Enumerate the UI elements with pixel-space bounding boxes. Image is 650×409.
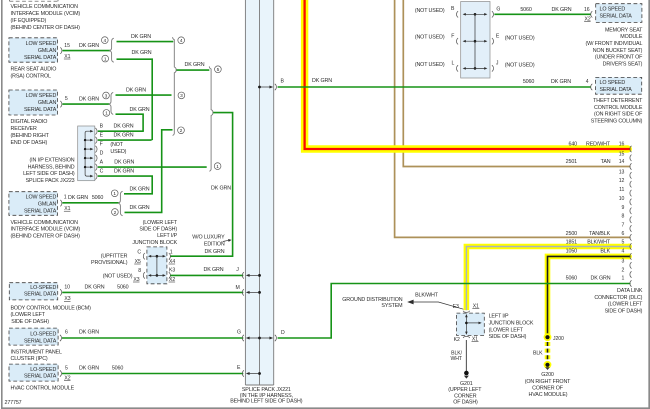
- svg-text:STEERING COLUMN): STEERING COLUMN): [591, 118, 643, 124]
- svg-text:END OF DASH): END OF DASH): [11, 140, 48, 146]
- wire G to memory seat 5060 DK GRN 16: [494, 7, 592, 23]
- svg-text:SERIAL DATA: SERIAL DATA: [24, 55, 57, 61]
- page border right: [648, 0, 650, 409]
- svg-text:(NOT USED): (NOT USED): [505, 35, 535, 41]
- ground distribution arrow BLK/WHT: [407, 293, 463, 310]
- svg-text:DK GRN: DK GRN: [130, 186, 150, 192]
- svg-text:14: 14: [619, 159, 625, 165]
- svg-text:USED): USED): [110, 149, 126, 155]
- svg-text:C: C: [100, 168, 104, 174]
- svg-text:15: 15: [64, 43, 70, 49]
- svg-text:F: F: [100, 141, 103, 147]
- connector pin 15 X1 of RSA: [60, 43, 70, 60]
- wire brace A output DK GRN: [177, 62, 210, 70]
- wire 2500 TAN/BLK (vertical from top to DLC pin 6): [395, 0, 631, 237]
- svg-text:6: 6: [65, 330, 68, 336]
- svg-text:3: 3: [180, 93, 183, 99]
- svg-text:BLK/WHT: BLK/WHT: [587, 240, 611, 246]
- svg-text:(UPFITTER: (UPFITTER: [101, 253, 128, 259]
- DLC pin 8: [622, 214, 632, 223]
- svg-text:(BEHIND CENTER OF DASH): (BEHIND CENTER OF DASH): [11, 25, 81, 31]
- module box DRR low speed GMLAN serial data: [9, 90, 58, 115]
- svg-text:(IF EQUIPPED): (IF EQUIPPED): [11, 18, 47, 24]
- svg-text:SERIAL DATA: SERIAL DATA: [24, 107, 57, 113]
- svg-text:2: 2: [114, 210, 117, 216]
- module box IPC lo-speed serial data: [9, 328, 58, 345]
- svg-text:BEHIND LEFT SIDE OF DASH): BEHIND LEFT SIDE OF DASH): [230, 399, 302, 405]
- svg-text:J200: J200: [553, 336, 564, 342]
- DLC pin 2: [622, 268, 632, 278]
- svg-text:(NOT USED): (NOT USED): [415, 8, 445, 14]
- svg-text:SIDE OF DASH): SIDE OF DASH): [11, 319, 49, 325]
- svg-text:9: 9: [622, 205, 625, 211]
- wire 1851 BLK/WHT core: [466, 247, 630, 311]
- svg-text:MODULE: MODULE: [620, 34, 643, 40]
- module box HVAC lo-speed serial data: [9, 364, 58, 381]
- svg-text:CORNER OF: CORNER OF: [532, 386, 564, 392]
- brace split RSA: [110, 38, 114, 62]
- junction block box (lower): [457, 313, 485, 335]
- svg-text:1050: 1050: [566, 248, 577, 254]
- wire DK GRN 5060 from bus B to theft deterrent: [278, 86, 591, 88]
- wire branch 4 DK GRN: [117, 34, 174, 41]
- svg-text:DK GRN: DK GRN: [552, 7, 572, 13]
- bus pin G/D row: [237, 330, 285, 342]
- label ground distribution system: [342, 297, 403, 309]
- circled 2 at VCIM: [112, 209, 119, 216]
- svg-text:RED/WHT: RED/WHT: [586, 142, 611, 148]
- svg-text:4: 4: [103, 38, 106, 44]
- svg-text:SERIAL DATA: SERIAL DATA: [600, 87, 633, 93]
- svg-text:DIGITAL RADIO: DIGITAL RADIO: [11, 119, 48, 125]
- label IPC: [11, 350, 62, 363]
- svg-text:SERIAL DATA: SERIAL DATA: [24, 338, 57, 344]
- svg-text:LO-SPEED: LO-SPEED: [30, 332, 56, 338]
- svg-text:INTERFACE MODULE (VCIM): INTERFACE MODULE (VCIM): [11, 227, 81, 233]
- svg-text:10: 10: [64, 285, 70, 291]
- svg-text:(NOT USED): (NOT USED): [415, 34, 445, 40]
- svg-text:(LOWER LEFT: (LOWER LEFT: [608, 302, 643, 308]
- svg-text:SERIAL DATA: SERIAL DATA: [24, 208, 57, 214]
- svg-text:DK GRN: DK GRN: [130, 205, 150, 211]
- svg-text:16: 16: [584, 7, 590, 13]
- wire DK GRN from DRR pin 5: [62, 96, 109, 104]
- svg-text:DK GRN: DK GRN: [114, 168, 134, 174]
- svg-text:(NOT USED): (NOT USED): [103, 274, 133, 280]
- JX223 pin D row (not used): [84, 149, 127, 162]
- svg-text:D: D: [100, 150, 104, 156]
- svg-text:DK GRN: DK GRN: [126, 88, 146, 94]
- svg-text:1: 1: [216, 164, 219, 170]
- splice pack JX223 box: [78, 126, 95, 181]
- wire branch 3 DK GRN: [116, 88, 172, 96]
- connector pin 6 of IPC: [60, 330, 68, 342]
- svg-text:INTERFACE MODULE (VCIM): INTERFACE MODULE (VCIM): [11, 11, 81, 17]
- wire BLK/WHT to G201: [451, 340, 467, 371]
- svg-text:5: 5: [65, 365, 68, 371]
- circled 3 at brace A: [178, 92, 185, 99]
- splice row B/G: [415, 6, 501, 17]
- wire 640 RED/WHT core: [305, 0, 631, 149]
- svg-text:277757: 277757: [5, 400, 22, 406]
- labels 5060 DK GRN 4 on theft wire: [523, 79, 592, 90]
- svg-text:16: 16: [619, 142, 625, 148]
- circled 1 at VCIM: [111, 190, 118, 197]
- DLC pin 12: [619, 178, 632, 187]
- page border left: [1, 0, 3, 408]
- brace A collector: [173, 37, 177, 135]
- wire branch 1 DK GRN to JX223 pin E: [117, 50, 153, 140]
- wire DK GRN 5060 from BCM to bus M: [62, 285, 243, 293]
- svg-text:VEHICLE COMMUNICATION: VEHICLE COMMUNICATION: [11, 220, 79, 226]
- junction block row 8/K3: [133, 268, 175, 283]
- svg-text:LOW SPEED: LOW SPEED: [26, 93, 57, 99]
- connector pin 5 X2 of HVAC: [60, 365, 71, 381]
- svg-text:CLUSTER (IPC): CLUSTER (IPC): [11, 356, 48, 362]
- svg-text:TAN/BLK: TAN/BLK: [589, 231, 610, 237]
- module box RSA low speed GMLAN serial data: [9, 38, 58, 62]
- svg-text:8: 8: [622, 214, 625, 220]
- svg-text:(IN I/P EXTENSION: (IN I/P EXTENSION: [29, 158, 74, 164]
- svg-text:L: L: [452, 61, 455, 67]
- wire 1851 end dot highlight: [626, 244, 632, 250]
- svg-text:1: 1: [113, 191, 116, 197]
- svg-text:LOW SPEED: LOW SPEED: [26, 195, 57, 201]
- wire 1050 BLK highlight: [548, 256, 631, 337]
- wire 1050 end dot highlight: [626, 254, 632, 260]
- svg-text:5: 5: [65, 96, 68, 102]
- svg-text:G200: G200: [541, 372, 554, 378]
- wire brace B output DK GRN to junction block row 1: [170, 113, 232, 257]
- brace split DRR: [109, 92, 113, 114]
- svg-text:5060: 5060: [112, 365, 123, 371]
- svg-text:(LOWER LEFT: (LOWER LEFT: [11, 312, 46, 318]
- svg-text:E3: E3: [453, 304, 459, 310]
- wire DK GRN from RSA pin 15: [62, 43, 110, 51]
- svg-text:640: 640: [569, 142, 578, 148]
- svg-text:LEFT I/P: LEFT I/P: [157, 233, 177, 239]
- DLC pin 3: [622, 259, 632, 269]
- wire BLK dashed to G200: [533, 342, 547, 362]
- circled 1 at brace B: [214, 163, 221, 170]
- label digital radio receiver: [11, 119, 50, 146]
- svg-text:DATA LINK: DATA LINK: [617, 288, 643, 294]
- svg-text:REAR SEAT AUDIO: REAR SEAT AUDIO: [11, 66, 57, 72]
- wire DK GRN 5060 from bus D to DLC pin 1: [278, 284, 631, 339]
- JX223 pin A row: [84, 159, 135, 170]
- wire DK GRN from IPC to bus G: [62, 330, 243, 339]
- ground G201: [448, 371, 482, 406]
- svg-text:LO SPEED: LO SPEED: [600, 80, 626, 86]
- svg-text:6: 6: [622, 231, 625, 237]
- svg-text:1: 1: [64, 195, 67, 201]
- label memory seat module: [586, 27, 644, 67]
- circled 1 at RSA: [102, 55, 109, 62]
- svg-text:5060: 5060: [92, 195, 103, 201]
- svg-text:2: 2: [180, 128, 183, 134]
- svg-text:BLK/WHT: BLK/WHT: [415, 293, 439, 299]
- label left I/P junction block lower: [489, 314, 534, 341]
- wire branch 2 DK GRN to brace A: [125, 130, 173, 213]
- svg-text:M: M: [236, 285, 240, 291]
- circled 1 at DRR: [103, 110, 110, 117]
- wire JX223 pin C to VCIM branch 1: [98, 176, 152, 194]
- svg-text:4: 4: [180, 38, 183, 44]
- svg-text:D: D: [281, 330, 285, 336]
- svg-text:LO SPEED: LO SPEED: [600, 7, 626, 13]
- svg-text:5060: 5060: [520, 7, 531, 13]
- DLC pin 10: [619, 196, 632, 205]
- JX223 pin F row (not used): [84, 141, 124, 152]
- bus pin B row: [258, 79, 284, 91]
- svg-text:F: F: [451, 34, 454, 40]
- svg-text:EDITION: EDITION: [204, 242, 225, 248]
- svg-text:DK GRN: DK GRN: [132, 50, 152, 56]
- svg-text:DK GRN: DK GRN: [211, 185, 231, 191]
- splice row L/J: [415, 60, 535, 71]
- connector pin 1 X1 of VCIM: [60, 195, 70, 212]
- svg-text:2500: 2500: [566, 231, 577, 237]
- ground G200: [525, 361, 571, 398]
- wire DK GRN 5060 from VCIM pin 1: [62, 195, 118, 203]
- svg-text:DK GRN: DK GRN: [114, 132, 134, 138]
- svg-text:1851: 1851: [566, 240, 577, 246]
- svg-text:DK GRN: DK GRN: [551, 79, 571, 85]
- splice row F/E: [415, 34, 535, 45]
- label rear seat audio: [11, 66, 57, 79]
- svg-text:HARNESS, BEHIND: HARNESS, BEHIND: [28, 165, 75, 171]
- DLC pin 11: [619, 187, 631, 196]
- svg-text:DK GRN: DK GRN: [85, 285, 105, 291]
- brace split VCIM: [119, 191, 123, 215]
- svg-text:(LOWER LEFT: (LOWER LEFT: [143, 220, 178, 226]
- svg-text:SERIAL DATA: SERIAL DATA: [24, 292, 57, 298]
- svg-text:GMLAN: GMLAN: [38, 100, 57, 106]
- circled 5 at brace B: [215, 66, 222, 73]
- DLC pin 4 row labels: [566, 248, 632, 259]
- svg-text:DK GRN: DK GRN: [185, 62, 205, 68]
- wire 1851 BLK/WHT highlight: [466, 247, 630, 311]
- svg-text:INSTRUMENT PANEL: INSTRUMENT PANEL: [11, 350, 62, 356]
- svg-text:MEMORY SEAT: MEMORY SEAT: [605, 27, 643, 33]
- svg-text:(UPPER LEFT: (UPPER LEFT: [448, 387, 482, 393]
- svg-text:3: 3: [105, 93, 108, 99]
- DLC pin 7: [622, 223, 632, 232]
- circled 4 at RSA: [101, 37, 108, 44]
- svg-text:DK GRN: DK GRN: [114, 123, 134, 129]
- label VCIM top: [11, 4, 81, 31]
- DLC pin 13: [619, 169, 632, 178]
- connector pin 5 of DRR: [60, 96, 68, 107]
- circled 3 at DRR: [103, 92, 110, 99]
- module box memory seat lo speed serial data: [596, 4, 642, 23]
- JX223 pin C row: [90, 168, 134, 179]
- svg-text:CONTROL MODULE: CONTROL MODULE: [594, 105, 643, 111]
- svg-text:(ON RIGHT FRONT: (ON RIGHT FRONT: [525, 379, 571, 385]
- svg-text:GMLAN: GMLAN: [38, 201, 57, 207]
- label splice pack JX221: [230, 387, 302, 404]
- wire JX223 pin A to brace: [98, 166, 207, 168]
- svg-text:CORNER: CORNER: [454, 393, 477, 399]
- svg-text:BLK: BLK: [600, 248, 610, 254]
- svg-text:DK GRN: DK GRN: [312, 78, 332, 84]
- bus pin E row: [237, 365, 261, 377]
- svg-text:1: 1: [104, 56, 107, 62]
- svg-text:DK GRN: DK GRN: [114, 159, 134, 165]
- svg-text:1: 1: [622, 275, 625, 281]
- module box theft lo speed serial data: [596, 77, 642, 94]
- svg-text:LO-SPEED: LO-SPEED: [30, 285, 56, 291]
- svg-text:HVAC CONTROL MODULE: HVAC CONTROL MODULE: [11, 385, 75, 391]
- svg-text:G: G: [496, 7, 500, 13]
- svg-text:LOW SPEED: LOW SPEED: [26, 41, 57, 47]
- junction block box (upper): [147, 247, 167, 284]
- svg-text:7: 7: [622, 223, 625, 229]
- wire JX223 pin E: [98, 139, 152, 141]
- JX223 pin B row: [90, 123, 134, 134]
- svg-text:12: 12: [619, 178, 625, 184]
- module box VCIM low speed GMLAN serial data: [9, 192, 58, 216]
- svg-text:LO-SPEED: LO-SPEED: [30, 367, 56, 373]
- svg-text:G: G: [237, 330, 241, 336]
- svg-text:1: 1: [105, 111, 108, 117]
- label VCIM lower: [11, 220, 81, 240]
- wire 1050 BLK core: [548, 256, 631, 336]
- svg-text:(W/ FRONT INDIVIDUAL: (W/ FRONT INDIVIDUAL: [586, 41, 643, 47]
- svg-text:TAN: TAN: [601, 159, 611, 165]
- svg-text:DRIVER'S SEAT): DRIVER'S SEAT): [603, 61, 643, 67]
- svg-text:DK GRN: DK GRN: [205, 249, 225, 255]
- svg-text:RECEIVER: RECEIVER: [11, 126, 37, 132]
- bus pin M row: [236, 285, 261, 295]
- svg-text:C: C: [137, 250, 141, 256]
- svg-text:DK GRN: DK GRN: [591, 275, 611, 281]
- label upfitter provisional: [91, 253, 128, 266]
- svg-text:VEHICLE COMMUNICATION: VEHICLE COMMUNICATION: [11, 4, 79, 10]
- svg-text:(ON RIGHT SIDE OF: (ON RIGHT SIDE OF: [594, 112, 643, 118]
- label theft deterrent control module: [591, 98, 643, 124]
- svg-text:HVAC MODULE): HVAC MODULE): [529, 392, 568, 398]
- svg-text:SPLICE PACK JX223: SPLICE PACK JX223: [26, 178, 75, 184]
- svg-text:BODY CONTROL MODULE (BCM): BODY CONTROL MODULE (BCM): [11, 306, 92, 312]
- wire 640 RED/WHT end dot highlight: [625, 146, 632, 153]
- svg-text:GMLAN: GMLAN: [38, 48, 57, 54]
- svg-text:BLK: BLK: [533, 350, 543, 356]
- svg-text:SIDE OF DASH): SIDE OF DASH): [139, 227, 177, 233]
- splice box top right: [461, 2, 490, 79]
- DLC pin 14 row labels: [566, 159, 632, 170]
- svg-text:WHT: WHT: [451, 356, 463, 362]
- JX223 pin E row: [84, 132, 134, 143]
- wire DK GRN 5060 from HVAC to bus E: [62, 365, 243, 373]
- label left I/P junction block (upper): [132, 220, 178, 246]
- svg-text:W/O LUXURY: W/O LUXURY: [192, 235, 225, 241]
- svg-text:5: 5: [622, 240, 625, 246]
- label W/O luxury edition with arrow: [192, 235, 231, 248]
- svg-text:(NOT: (NOT: [110, 142, 123, 148]
- svg-text:LEFT SIDE OF DASH): LEFT SIDE OF DASH): [23, 171, 75, 177]
- DLC pin 15: [619, 151, 632, 161]
- svg-text:JUNCTION BLOCK: JUNCTION BLOCK: [489, 321, 534, 327]
- svg-text:(NOT USED): (NOT USED): [505, 63, 535, 69]
- svg-text:(NOT USED): (NOT USED): [415, 62, 445, 68]
- svg-text:OF DASH): OF DASH): [453, 400, 478, 406]
- svg-text:JUNCTION BLOCK: JUNCTION BLOCK: [132, 240, 177, 246]
- svg-text:DK GRN: DK GRN: [79, 43, 99, 49]
- wire branch 1 DK GRN to JX223 pin B: [116, 107, 150, 131]
- svg-text:(BEHIND CENTER OF DASH): (BEHIND CENTER OF DASH): [11, 234, 81, 240]
- svg-text:DK GRN: DK GRN: [204, 267, 224, 273]
- junction block row C/1: [134, 249, 175, 265]
- DLC pin 1 row labels: [566, 275, 632, 286]
- svg-text:1: 1: [170, 249, 173, 255]
- svg-text:DK GRN: DK GRN: [79, 330, 99, 336]
- label splice pack JX223: [23, 158, 75, 185]
- svg-text:G201: G201: [460, 381, 473, 387]
- svg-text:K2: K2: [454, 337, 460, 343]
- DLC pin 9: [622, 205, 632, 214]
- svg-text:4: 4: [586, 79, 589, 85]
- svg-text:LEFT I/P: LEFT I/P: [489, 314, 509, 320]
- DLC pin 16 row labels: [569, 142, 632, 153]
- svg-text:2: 2: [622, 268, 625, 274]
- wire 2501 TAN (vertical from top to DLC pin 14): [403, 0, 630, 167]
- svg-text:SERIAL DATA: SERIAL DATA: [600, 14, 633, 20]
- svg-text:SYSTEM: SYSTEM: [381, 303, 403, 309]
- circled 4 at brace A: [178, 37, 185, 44]
- connector pin 10 X3 of BCM: [60, 285, 71, 303]
- svg-text:3: 3: [622, 259, 625, 265]
- svg-text:SERIAL DATA: SERIAL DATA: [24, 374, 57, 380]
- svg-text:(BEHIND RIGHT: (BEHIND RIGHT: [11, 133, 50, 139]
- svg-text:10: 10: [619, 196, 625, 202]
- svg-text:13: 13: [619, 169, 625, 175]
- partial box top (cut off module): [10, 0, 59, 1]
- svg-text:PROVISIONAL): PROVISIONAL): [91, 260, 128, 266]
- svg-text:DK GRN: DK GRN: [79, 96, 99, 102]
- circled 2 at brace A: [178, 127, 185, 134]
- svg-text:11: 11: [619, 187, 624, 193]
- splice pack JX221 bus (vertical, center): [245, 0, 273, 385]
- svg-text:THEFT DETERRENT: THEFT DETERRENT: [593, 98, 643, 104]
- svg-text:NON BUCKET SEAT): NON BUCKET SEAT): [593, 48, 643, 54]
- svg-text:5060: 5060: [117, 285, 128, 291]
- svg-text:8: 8: [138, 268, 141, 274]
- wire JX223 pin B: [98, 130, 144, 132]
- DLC pin 5 row labels: [566, 240, 632, 250]
- label BCM: [11, 306, 92, 325]
- label data link connector DLC: [594, 288, 643, 314]
- svg-text:CONNECTOR (DLC): CONNECTOR (DLC): [594, 295, 642, 301]
- wire junction row 2 to bus J: [170, 267, 243, 275]
- wire 640 RED/WHT highlight (yellow): [305, 0, 629, 149]
- svg-text:DK GRN: DK GRN: [68, 195, 88, 201]
- pin K2 X1: [454, 336, 479, 343]
- svg-text:DK GRN: DK GRN: [130, 107, 150, 113]
- bus pin J row: [242, 272, 261, 278]
- page border bottom: [1, 407, 650, 409]
- module box BCM lo-speed serial data: [9, 283, 57, 300]
- svg-text:SIDE OF DASH): SIDE OF DASH): [605, 309, 643, 315]
- svg-text:5060: 5060: [523, 79, 534, 85]
- svg-text:DK GRN: DK GRN: [131, 34, 151, 40]
- svg-text:5: 5: [217, 67, 220, 73]
- brace B collector: [209, 66, 213, 171]
- svg-text:K3: K3: [169, 268, 175, 274]
- svg-text:15: 15: [619, 151, 625, 157]
- svg-text:DK GRN: DK GRN: [79, 365, 99, 371]
- svg-text:4: 4: [622, 248, 625, 254]
